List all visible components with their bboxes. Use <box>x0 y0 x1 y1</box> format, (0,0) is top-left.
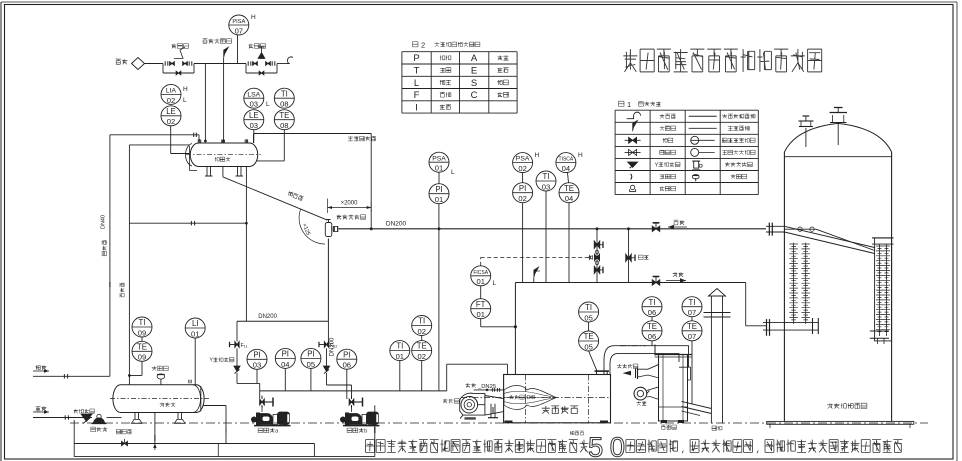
Y-strainer a <box>234 348 240 373</box>
svg-text:PSA: PSA <box>432 155 446 162</box>
pump 循环泵a <box>251 412 291 426</box>
table 2 title <box>413 41 480 50</box>
svg-text:F: F <box>414 90 420 101</box>
instrument PI-01 <box>429 184 449 204</box>
pipe TE-02 stem <box>421 336 423 391</box>
pipe PI-05 stem <box>310 368 312 391</box>
instrument PI-02 <box>513 183 533 203</box>
title 油田热媒炉供热工艺流程图 <box>623 49 821 72</box>
svg-text:PSA: PSA <box>516 156 530 163</box>
svg-text:TE: TE <box>564 184 574 193</box>
svg-text:PI: PI <box>282 350 289 359</box>
svg-text:03: 03 <box>542 182 550 191</box>
instrument TI-05 <box>579 302 599 322</box>
svg-text:DN200: DN200 <box>258 314 277 320</box>
svg-text:S: S <box>471 78 477 89</box>
svg-text:02: 02 <box>518 164 526 173</box>
svg-text:LE: LE <box>166 107 176 116</box>
valve 供油 <box>652 223 660 232</box>
svg-text:TE: TE <box>647 322 657 331</box>
instrument TI-08 <box>274 88 294 108</box>
tank left coil 1 <box>789 243 797 324</box>
svg-text:01: 01 <box>396 352 404 361</box>
pipe TE-05 stem <box>589 322 597 371</box>
label 油过滤器 <box>74 409 95 413</box>
label DN200 supply <box>386 221 407 228</box>
pipe nitrogen drop to vessel <box>204 64 206 142</box>
pipe pump header <box>260 390 447 392</box>
svg-text:L: L <box>183 97 187 104</box>
label DN200 vertical <box>330 337 336 356</box>
label 常闭 <box>638 255 648 259</box>
pipe pump-b branch <box>327 321 329 342</box>
tank upper nozzle <box>766 223 816 236</box>
ground dash-dot line <box>70 422 928 424</box>
pipe suction header <box>237 239 328 342</box>
separator 油气分离器 <box>325 220 337 237</box>
svg-text:TE: TE <box>687 322 697 331</box>
instrument LE-03 <box>244 110 264 130</box>
label 氮气 <box>116 59 128 64</box>
label 膨胀槽 <box>215 157 231 161</box>
svg-text:H: H <box>578 152 583 159</box>
instrument TI-03 <box>536 171 556 191</box>
instrument TE-06 <box>642 321 662 341</box>
svg-text:H: H <box>183 86 188 93</box>
pipe TE-06 stem <box>651 317 653 346</box>
label 调节阀 <box>249 44 266 49</box>
svg-text:02: 02 <box>417 352 425 361</box>
svg-text:2: 2 <box>421 41 425 50</box>
instrument FT-01 <box>471 299 491 319</box>
svg-text:C: C <box>471 90 478 101</box>
pipe LE-02 stem <box>171 126 190 154</box>
preheater body <box>655 355 692 422</box>
label 注油泵 <box>91 427 107 432</box>
svg-text:E: E <box>471 66 477 77</box>
junction dots supply <box>370 228 630 231</box>
svg-text:04: 04 <box>562 164 570 173</box>
pipe bottom header <box>74 444 375 457</box>
label 循环泵a <box>258 428 279 434</box>
oil filter 油过滤器 <box>81 414 92 424</box>
pipe return drop to tank <box>746 283 766 326</box>
label 储油槽 <box>160 403 176 407</box>
label 进油 <box>36 365 50 373</box>
svg-text:H: H <box>535 152 540 159</box>
svg-text:01: 01 <box>435 195 443 204</box>
junction dots vessel top <box>204 140 225 142</box>
instrument PI-03 <box>247 349 267 369</box>
svg-text:08: 08 <box>280 100 288 109</box>
svg-text:01: 01 <box>191 329 199 338</box>
tank base plate <box>767 421 914 428</box>
label 燃烧器砌砖 <box>509 395 534 399</box>
safety valve 氮气安全阀 <box>224 47 229 141</box>
control valve FV <box>590 250 600 264</box>
drain fitting <box>122 439 128 446</box>
pipe fill line to vessel <box>110 133 199 141</box>
pipe PI-02 stem <box>522 173 524 283</box>
svg-text:Y: Y <box>209 358 213 364</box>
svg-text:03: 03 <box>250 100 258 109</box>
svg-text:DN40: DN40 <box>101 215 107 229</box>
pipe vessel left head drain <box>129 145 189 385</box>
svg-text:DN200: DN200 <box>386 221 407 228</box>
label 泄油管 <box>120 283 124 298</box>
svg-text:TE: TE <box>584 332 594 341</box>
pump 循环泵b <box>340 412 380 426</box>
pipe 进油 line <box>33 371 110 379</box>
svg-text:02: 02 <box>417 327 425 336</box>
pipe nitrogen main <box>145 63 288 65</box>
pipe pump-b feed <box>327 373 352 398</box>
label Y型过滤器 a <box>209 358 234 364</box>
label 油气分离器 <box>337 215 366 220</box>
instrument PI-04 <box>275 348 295 368</box>
pipe DN40 riser <box>109 135 111 376</box>
pipe 出油 line <box>33 412 92 420</box>
pipe PI-01 stem <box>438 172 440 391</box>
svg-text:04: 04 <box>565 194 573 203</box>
label DN200 header <box>258 314 277 320</box>
pipe PISA-07 stem <box>237 35 239 64</box>
instrument TE-07 <box>682 321 702 341</box>
svg-text:07: 07 <box>688 332 696 341</box>
svg-text:LIA: LIA <box>166 88 177 95</box>
svg-text:LSA: LSA <box>247 91 260 98</box>
tank left coil 2 <box>802 243 810 324</box>
svg-text:PI: PI <box>519 184 526 193</box>
pipe 辅助排气管 <box>254 134 372 229</box>
vessel 储油槽 body <box>110 385 209 413</box>
pipe TE-04 stem <box>568 173 570 283</box>
vessel 膨胀槽 top nozzles <box>198 139 247 144</box>
tank inlet diagonal pipes <box>784 226 874 253</box>
pipe FT-01 tap <box>481 319 517 328</box>
svg-text:07: 07 <box>235 26 243 35</box>
vessel 储油槽 legs <box>132 413 186 424</box>
pipe LI-01 stem <box>189 338 195 385</box>
svg-text:08: 08 <box>280 121 288 130</box>
svg-text:F₁₂: F₁₂ <box>330 343 337 349</box>
instrument TI-09 <box>132 317 152 337</box>
svg-text:L: L <box>451 169 455 176</box>
instrument PISA-07 <box>229 14 256 35</box>
pipe pump to tank <box>107 417 122 419</box>
preheater air duct upper <box>636 364 660 379</box>
label 呼吸阀 <box>152 366 168 371</box>
vessel 膨胀槽 legs <box>205 167 243 177</box>
junction dot drain <box>128 222 247 377</box>
pipe TE-07 stem <box>691 317 693 404</box>
label 循环泵b <box>347 428 367 434</box>
pigtail siphon <box>287 57 293 64</box>
svg-text:1: 1 <box>627 100 631 109</box>
instrument LI-01 <box>185 318 205 338</box>
tank right coil <box>870 238 894 344</box>
label 回油 <box>666 272 686 283</box>
pipe PI-03 stem <box>256 369 258 383</box>
tank top valve 1 <box>799 116 814 147</box>
svg-text:TISCA: TISCA <box>559 157 574 163</box>
instrument TE-02 <box>412 341 432 361</box>
burner base pedestal <box>488 404 498 418</box>
svg-text:F₁₁: F₁₁ <box>241 343 248 349</box>
breather valve 呼吸阀 <box>157 374 165 385</box>
Y-strainer b <box>323 348 329 373</box>
label 供油 <box>668 220 687 229</box>
injection pump 注油泵 <box>92 414 107 423</box>
svg-text:TI: TI <box>281 89 288 98</box>
svg-text:PI: PI <box>253 350 260 359</box>
svg-text:06: 06 <box>648 332 656 341</box>
label 空预器 <box>661 425 676 429</box>
svg-text:04: 04 <box>281 360 289 369</box>
svg-text:09: 09 <box>138 353 146 362</box>
svg-text:07: 07 <box>688 308 696 317</box>
valve branch lower <box>594 266 603 274</box>
instrument LSA-03 <box>244 88 270 108</box>
angle dimension arc <box>299 210 325 245</box>
valve Fn <box>230 342 248 350</box>
svg-text:05: 05 <box>584 313 592 322</box>
valve pump-b suction <box>349 396 362 412</box>
pipe PI-06 stem <box>346 369 348 399</box>
pipe TI-01 stem <box>399 361 401 391</box>
svg-text:Y: Y <box>655 162 659 168</box>
signal line FICSA to valve <box>481 256 593 266</box>
pipe return line <box>515 282 745 284</box>
pipe PI-04 stem <box>284 368 286 391</box>
svg-text:T: T <box>414 66 420 77</box>
svg-text:L: L <box>266 101 270 108</box>
instrument PSA-02 <box>513 152 540 173</box>
label 排污管 <box>116 430 131 434</box>
instrument FICSA-01 <box>471 266 497 287</box>
furnace base pads <box>505 421 609 424</box>
pipe storage drain <box>153 413 156 451</box>
svg-text:TE: TE <box>137 342 147 351</box>
svg-text:03: 03 <box>250 121 258 130</box>
svg-text:TE: TE <box>417 342 427 351</box>
pipe pump-a feed <box>237 373 260 398</box>
instrument TI-02 <box>412 316 432 336</box>
valve group regulating with bypass <box>246 47 277 75</box>
svg-text:02: 02 <box>518 194 526 203</box>
label 氮气安全阀 <box>203 39 232 44</box>
pipe storage suction <box>203 406 226 444</box>
instrument TI-01 <box>390 341 410 361</box>
svg-text:×2000: ×2000 <box>341 201 359 207</box>
svg-text:H: H <box>251 14 256 21</box>
svg-text:01: 01 <box>476 277 484 286</box>
furnace flame <box>504 385 556 409</box>
label 燃气 DN25 <box>466 383 497 390</box>
svg-text:05: 05 <box>584 342 592 351</box>
svg-text:TI: TI <box>649 298 656 307</box>
svg-text:02: 02 <box>167 117 175 126</box>
svg-text:TI: TI <box>585 303 592 312</box>
valve bypass 常闭 <box>626 254 635 262</box>
instrument TE-08 <box>274 110 294 130</box>
burner cone to furnace <box>460 396 504 420</box>
label 溢流管 <box>287 191 303 201</box>
vessel 膨胀槽 body <box>186 143 261 171</box>
svg-text:PI: PI <box>435 185 442 194</box>
pipe TE-08 stem <box>257 130 284 161</box>
svg-text:PISA: PISA <box>232 19 245 25</box>
table 表2 自控仪表参数代号 <box>402 52 517 114</box>
pipe TE-09 stem <box>129 337 142 376</box>
pipe FICSA-FT stem <box>480 286 482 299</box>
svg-text:TI: TI <box>543 172 550 181</box>
table 1 title <box>619 100 661 109</box>
valve pump-a suction <box>260 396 273 412</box>
preheater base pads <box>661 420 684 423</box>
pipe LE-03 stem <box>253 130 255 143</box>
preheater flue duct <box>604 345 689 375</box>
instrument PSA-01 <box>429 152 455 176</box>
svg-text:LI: LI <box>192 319 199 328</box>
chimney <box>704 289 731 424</box>
svg-text:I: I <box>415 102 418 113</box>
svg-text:TI: TI <box>396 342 403 351</box>
label 辅助排气管 <box>348 136 376 141</box>
instrument TI-07 <box>682 297 702 317</box>
svg-text:TE: TE <box>279 111 289 120</box>
svg-text:LE: LE <box>249 111 259 120</box>
pipe main supply DN200 <box>339 228 767 230</box>
label DN40 <box>101 215 107 229</box>
svg-text:TI: TI <box>418 317 425 326</box>
svg-text:09: 09 <box>138 328 146 337</box>
svg-text:02: 02 <box>167 96 175 105</box>
valve group manual with bypass <box>163 47 194 75</box>
pipe furnace outlet riser <box>514 283 516 375</box>
pipe bypass branch x628 <box>628 229 630 283</box>
label 注油管 <box>102 240 106 256</box>
svg-text:b: b <box>364 428 367 434</box>
valve branch upper <box>594 241 603 249</box>
table 表1 legend <box>615 110 758 194</box>
furnace outlet stub <box>595 371 610 374</box>
svg-text:PI: PI <box>307 350 314 359</box>
svg-text:01: 01 <box>476 310 484 319</box>
burner body <box>460 393 485 415</box>
svg-text:_DN25: _DN25 <box>477 384 496 390</box>
instrument TE-09 <box>132 341 152 361</box>
pipe injection drain <box>73 420 75 444</box>
svg-text:TI: TI <box>139 318 146 327</box>
pipe vessel bottom drain line <box>129 167 246 322</box>
svg-text:FT: FT <box>476 300 486 309</box>
instrument LIA-02 <box>161 84 188 104</box>
pipe riser pump-b drain <box>374 405 376 456</box>
svg-text:L: L <box>414 78 419 89</box>
pipe TI-03 stem <box>545 191 547 283</box>
fan 风机 <box>634 387 650 400</box>
pipe furnace feed riser <box>447 364 508 391</box>
pipe 溢流管 overflow diagonal <box>223 167 328 221</box>
preheater chimney duct <box>682 401 712 415</box>
furnace body <box>461 375 611 423</box>
svg-text:TI: TI <box>689 298 696 307</box>
svg-text:06: 06 <box>648 308 656 317</box>
preheater fan duct <box>647 387 659 400</box>
svg-text:FICSA: FICSA <box>473 270 488 276</box>
label 加热炉 <box>570 431 584 435</box>
label 出油 <box>36 406 50 414</box>
label 导热油炉 <box>542 406 578 414</box>
nitrogen diamond fitting <box>132 58 145 70</box>
label 风机 <box>637 401 647 405</box>
bottom text 常州市上能锅炉 <box>366 432 903 461</box>
svg-text:06: 06 <box>343 361 351 370</box>
instrument LE-02 <box>161 106 181 126</box>
label 燃烧器 <box>443 399 459 404</box>
instrument TE-04 <box>559 183 579 203</box>
gas line 燃气DN25 <box>474 388 504 392</box>
valve 回油 <box>652 277 660 286</box>
svg-text:PI: PI <box>343 350 350 359</box>
svg-text:05: 05 <box>307 360 315 369</box>
label 手动阀 <box>172 44 189 49</box>
label 往燃烧器 <box>617 364 638 375</box>
label 储油罐换热器 <box>827 403 867 408</box>
tank shell <box>784 123 891 421</box>
safety valve on return <box>534 267 540 283</box>
tank top valve 2 <box>830 108 848 146</box>
instrument TI-06 <box>642 297 662 317</box>
label 烟囱 <box>712 426 722 430</box>
instrument PI-05 <box>301 348 321 368</box>
svg-text:01: 01 <box>435 164 443 173</box>
valve Fr <box>319 342 337 350</box>
instrument TE-05 <box>579 331 599 351</box>
dimension x2000 <box>328 199 372 214</box>
svg-text:P: P <box>413 53 419 64</box>
instrument TISCA-04 <box>556 152 583 173</box>
svg-text:03: 03 <box>253 361 261 370</box>
svg-text:L: L <box>493 280 497 287</box>
pipe control branch <box>596 229 598 283</box>
burner circles <box>461 396 485 413</box>
tank lower nozzle <box>763 318 818 336</box>
svg-text:A: A <box>471 53 478 64</box>
instrument PI-06 <box>337 349 357 369</box>
